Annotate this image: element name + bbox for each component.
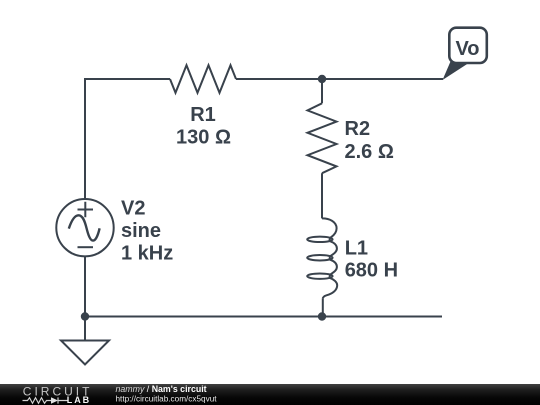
ground symbol [61,341,109,365]
svg-text:680 H: 680 H [345,260,398,282]
svg-text:2.6 Ω: 2.6 Ω [345,141,394,163]
wire R2 to L1 [321,173,323,218]
svg-text:L1: L1 [345,238,368,260]
label V2 sine 1 kHz [121,198,173,265]
node flag Vo box [449,28,487,63]
plus sign [78,202,94,218]
resistor R1 [170,65,236,93]
svg-text:V2: V2 [121,198,145,220]
wire top horizontal right (R1 to Vo wire end) [236,78,443,80]
wire ground stub [84,317,86,341]
wire V2 bottom to ground junction [84,256,86,316]
inductor L1 [307,218,337,298]
svg-text:LAB: LAB [67,395,91,405]
wire bottom horizontal [85,316,442,318]
svg-text:R1: R1 [190,104,216,126]
footer bar [0,384,540,405]
svg-text:nammy / Nam's circuit: nammy / Nam's circuit [116,384,207,394]
wire L1 bottom lead [321,299,324,317]
svg-text:sine: sine [121,220,161,242]
logo schematic motif [23,397,68,403]
node junction bottom (L1) [318,312,326,320]
svg-text:1 kHz: 1 kHz [121,243,173,265]
voltage source V2 [56,199,113,256]
label R1 130 Ω [176,104,231,149]
wire top-left vertical (V2 top to corner) [84,79,86,199]
svg-text:R2: R2 [345,118,371,140]
resistor R2 [308,103,337,173]
svg-text:http://circuitlab.com/cx5qvut: http://circuitlab.com/cx5qvut [116,395,218,404]
svg-text:Vo: Vo [455,38,479,60]
wire R2 top lead [321,79,323,103]
svg-text:130 Ω: 130 Ω [176,127,231,149]
flag pointer wedge for Vo [443,62,470,81]
label R2 2.6 Ω [345,118,394,163]
wire top horizontal left (corner to R1) [84,78,170,80]
node junction bottom-left [81,312,89,320]
sine wave [69,215,100,240]
node junction top (R2 tap) [318,75,326,83]
minus sign [78,246,94,248]
label L1 680 H [345,238,398,282]
